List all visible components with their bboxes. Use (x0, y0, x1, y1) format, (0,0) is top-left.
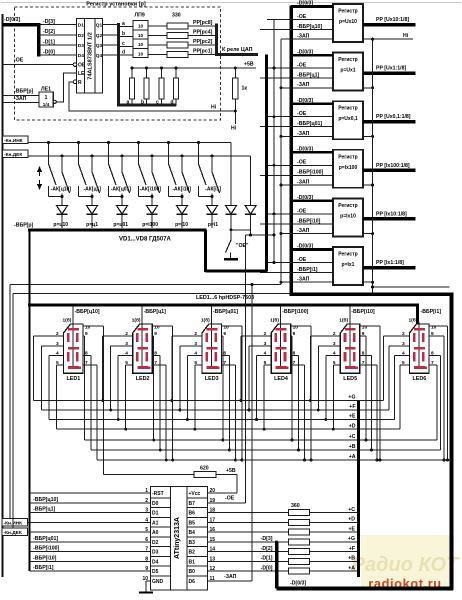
svg-text:-ЗАП: -ЗАП (14, 96, 27, 102)
segment G of LED1 (68, 347, 79, 350)
wire MCU pin 3 (30, 512, 151, 514)
wire -ЗАП mcu (208, 580, 253, 582)
wire -D[0/3] to U3 (291, 54, 333, 57)
junction switch pair (181, 195, 184, 198)
svg-text:LED1: LED1 (67, 376, 81, 382)
svg-text:B4: B4 (189, 530, 196, 536)
resistor 330 #4 (167, 52, 188, 58)
wire LED5 pin 2 (310, 335, 340, 337)
svg-text:1: 1 (45, 95, 48, 101)
wire LED6 pin 2 (384, 335, 410, 337)
wire ИНК to VD7 (230, 143, 232, 206)
bus PP [Uх10:1/8] (363, 23, 416, 27)
svg-text:-ОЕ: -ОЕ (297, 111, 307, 117)
junction -D[3] bus tap (275, 540, 278, 543)
wire LED2 pin 10 (152, 325, 173, 327)
junction switch pair (211, 195, 214, 198)
svg-text:-ВБР[ц1]: -ВБР[ц1] (33, 507, 55, 513)
wire LED2 pin 7 (152, 364, 166, 366)
switch SB9 (инкремент і10) (167, 141, 170, 144)
wire Q output (103, 34, 119, 36)
resistor 360 #5 (289, 549, 310, 555)
svg-text:-ВБР[і1]: -ВБР[і1] (297, 267, 318, 273)
junction LED3 pin 4 (186, 418, 189, 421)
junction LED5 pin 7 (376, 459, 379, 462)
svg-text:PP [Iх10:1/8]: PP [Iх10:1/8] (376, 211, 407, 217)
svg-text:Hi: Hi (403, 33, 409, 39)
wire LED6 pin 4 (395, 355, 410, 357)
wire to diode VD1 (61, 197, 63, 206)
wire -OE to U4 (267, 116, 333, 118)
svg-text:-Кн.ДЕК: -Кн.ДЕК (4, 530, 22, 536)
segment C of LED1 (76, 352, 79, 361)
wire MCU pin 16 (208, 531, 289, 533)
resistor 360 #2 (289, 519, 310, 525)
svg-text:Q1: Q1 (96, 23, 103, 29)
svg-text:Hi: Hi (211, 105, 217, 111)
svg-text:-ВБР[р]: -ВБР[р] (14, 89, 34, 95)
wire -Кн.ИНК to MCU pin 4 (9, 285, 11, 523)
bus left vertical (ВБР feed) (28, 228, 30, 571)
svg-text:-ВБР[ц01]: -ВБР[ц01] (213, 309, 238, 315)
wire to diode VD4 (151, 197, 153, 206)
resistor 330 #1 (167, 23, 188, 29)
segment C of LED3 (215, 352, 218, 361)
svg-text:PP[рс8]: PP[рс8] (193, 20, 213, 26)
wire Hi out U7 (363, 281, 373, 283)
junction d top (175, 67, 178, 70)
junction LED5 pin 3 (317, 409, 320, 412)
wire -Кн.ИНК line (28, 142, 231, 144)
resistor 360 #7 (289, 568, 310, 574)
junction LED3 pin 8 (228, 449, 231, 452)
segment E of LED1 (67, 352, 70, 361)
svg-text:Регистр: Регистр (338, 154, 357, 160)
svg-text:-ВБР[ц10]: -ВБР[ц10] (75, 309, 100, 315)
wire tap -D[3] (39, 24, 77, 26)
segment F of LED4 (275, 333, 278, 342)
wire tap d to ЛП9 (120, 54, 133, 56)
segment F of LED6 (413, 333, 416, 342)
svg-text:LED6: LED6 (413, 376, 427, 382)
svg-text:-D[0]: -D[0] (43, 50, 55, 56)
wire 620 to +5В (216, 474, 237, 476)
wire -D[0/3] to U4 (291, 102, 333, 105)
junction Hi column (371, 135, 374, 138)
segment B of LED4 (284, 333, 287, 342)
pin R of U1 (73, 80, 77, 84)
wire LED4 pin 7 (291, 364, 305, 366)
junction switch pair (151, 195, 154, 198)
svg-text:Регистр: Регистр (338, 57, 357, 63)
segment C of LED2 (145, 352, 148, 361)
junction switch pair (61, 195, 64, 198)
diode VD3 (117, 206, 128, 215)
junction OE column (273, 67, 276, 70)
svg-text:d: d (122, 50, 125, 56)
junction ЗАП column (280, 135, 283, 138)
wire VD7/VD8 join to ОЕ switch (231, 229, 251, 231)
wire MCU pin 12 (208, 570, 289, 572)
svg-text:-ВБР[і1]: -ВБР[і1] (421, 309, 442, 315)
junction c top (160, 67, 163, 70)
segment dp of LED3 (217, 366, 219, 368)
svg-text:D3: D3 (152, 550, 159, 556)
wire LED6 pin 5 (400, 364, 410, 366)
bus wrap vertical right of ОЕ switch (265, 55, 268, 272)
resistor c (159, 78, 164, 99)
junction LED2 pin 4 (117, 418, 120, 421)
svg-text:-ВБР[р]: -ВБР[р] (14, 223, 34, 229)
wire LED4 pin 3 (249, 345, 271, 347)
wire LED1 pin 8 (83, 355, 91, 357)
junction LED3 pin 5 (193, 428, 196, 431)
wire diode to bus (151, 215, 153, 229)
segment B of LED1 (76, 333, 79, 342)
junction OE column tap (273, 234, 276, 237)
wire MCU pin 8 (30, 560, 151, 562)
wire 1к bottom to Hi (234, 99, 236, 124)
wire -OE to U5 (267, 164, 333, 166)
svg-text:1(б): 1(б) (339, 317, 348, 324)
wire -OE to U1 (3, 64, 74, 66)
wire -OE to U3 (267, 67, 333, 69)
junction VD7 (230, 228, 233, 231)
svg-text:B7: B7 (189, 501, 196, 507)
svg-text:+B: +B (348, 556, 355, 562)
svg-text:-D[0/3]: -D[0/3] (297, 147, 313, 153)
segment G of LED6 (414, 347, 425, 350)
wire Hi out U6 (363, 233, 373, 235)
svg-text:LE: LE (78, 71, 85, 77)
wire LED3 pin 8 (221, 355, 229, 357)
wire Hi out U4 (363, 135, 373, 137)
svg-text:р=Uх1: р=Uх1 (340, 68, 355, 74)
svg-text:-D[0]: -D[0] (261, 565, 273, 571)
junction -D[0] bus tap (275, 570, 278, 573)
junction LED2 pin 9 (152, 439, 155, 442)
junction a top (131, 67, 134, 70)
svg-text:-ВБР[ц1]: -ВБР[ц1] (297, 73, 319, 79)
wire Q output (103, 44, 119, 46)
wire -D[0/3] to U5 (291, 151, 333, 154)
wire switch pair join (169, 196, 183, 198)
svg-text:р=ц01: р=ц01 (113, 222, 128, 228)
svg-text:10: 10 (138, 24, 144, 30)
wire LED1 pin 9 (83, 335, 85, 337)
bus PP [Uх1:1/8] (363, 71, 416, 75)
bus bottom edge (277, 587, 454, 591)
svg-text:D4: D4 (78, 53, 84, 59)
svg-text:-ЗАП: -ЗАП (297, 277, 310, 283)
svg-text:-Кн.ДЕК: -Кн.ДЕК (4, 152, 22, 158)
wire ИНК/ЗАП link horizontal (10, 284, 281, 286)
svg-text:ATtiny2313A: ATtiny2313A (174, 517, 181, 559)
segment E of LED2 (136, 352, 139, 361)
svg-text:-ВБР[ц1]: -ВБР[ц1] (144, 309, 166, 315)
wire LED3 pin 2 (172, 335, 202, 337)
junction OE column (273, 212, 276, 215)
svg-text:-ВБР[ц10]: -ВБР[ц10] (297, 24, 322, 30)
svg-text:-ВБР[і10]: -ВБР[і10] (33, 555, 57, 561)
bus wrap bottom (206, 270, 268, 273)
wire Hi out U2 (363, 38, 413, 40)
svg-text:-ВБР[ц01]: -ВБР[ц01] (297, 121, 322, 127)
wire tap b to ЛП9 (120, 36, 133, 38)
svg-text:D6: D6 (189, 579, 196, 585)
resistor d (174, 78, 179, 99)
wire MCU pin 15 (208, 541, 289, 543)
svg-text:+F: +F (349, 404, 355, 410)
boxed label -Кн.ИНК mcu (2, 518, 28, 526)
register U6 р=Iх10 (333, 198, 363, 236)
resistor 360 #4 (289, 539, 310, 545)
wire MCU pin 1 (30, 492, 151, 494)
svg-text:-АК[ц01]: -АК[ц01] (111, 187, 132, 193)
svg-text:р=Uх10: р=Uх10 (339, 19, 357, 25)
wire to +A (310, 570, 358, 572)
wire to PP[рс1] (188, 54, 215, 56)
svg-text:р=Iх1: р=Iх1 (342, 262, 355, 268)
wire -ВБР[ц1] to U3 (260, 77, 333, 79)
segment dp of LED6 (425, 366, 427, 368)
diode VD1 (57, 206, 68, 215)
wire LED1 pin 3 (42, 345, 64, 347)
wire ЗАП vertical (251, 285, 253, 581)
segment B of LED2 (145, 333, 148, 342)
wire resistor c bottom (161, 99, 163, 106)
register U4 р=Uх0,1 (333, 101, 363, 139)
svg-text:a: a (127, 100, 130, 106)
svg-text:+C: +C (349, 434, 356, 440)
svg-text:D1: D1 (78, 23, 84, 29)
wire diode to bus (211, 215, 213, 229)
wire to diode VD3 (121, 197, 123, 206)
register U1 74ALS873BNT 1/2 (77, 19, 103, 94)
wire tap -D[1] (39, 44, 77, 46)
junction OE column (273, 261, 276, 264)
svg-text:Hi: Hi (231, 126, 237, 132)
wire Hi out U5 (363, 184, 373, 186)
wire to +E (310, 531, 358, 533)
junction LED3 pin10 (240, 459, 243, 462)
wire LED4 pin 2 (241, 335, 271, 337)
boxed label -Кн.ИНК (3, 136, 29, 144)
wire -OE to U7 (267, 262, 333, 264)
junction LED4 pin 5 (263, 428, 266, 431)
svg-text:+G: +G (348, 395, 355, 401)
svg-text:+D: +D (349, 423, 356, 429)
wire to +D (310, 521, 358, 523)
junction LED4 pin 8 (297, 449, 300, 452)
arrow up (37, 166, 42, 172)
svg-text:Регистр установки [р]: Регистр установки [р] (86, 2, 146, 8)
svg-text:c: c (156, 100, 159, 106)
svg-text:-ЗАП: -ЗАП (297, 228, 310, 234)
svg-text:1к: 1к (242, 86, 248, 92)
svg-text:9: 9 (154, 331, 157, 337)
wire -ВБР[ц01] select (210, 306, 212, 368)
bus -D[0/3] main vertical (289, 6, 293, 296)
wire LED2 pin 4 (118, 355, 133, 357)
svg-text:VD1...VD8 ГД507А: VD1...VD8 ГД507А (119, 237, 172, 243)
wire resistor a top (131, 68, 133, 78)
resistor 360 #1 (289, 510, 310, 516)
bus PP [Iх1:1/8] (363, 266, 416, 270)
wire MCU pin 6 (30, 541, 151, 543)
bus PP [Uх0,1:1/8] (363, 120, 416, 124)
wire ЗАП column (280, 39, 282, 284)
bus abcd bottom run (117, 104, 176, 107)
svg-text:10: 10 (138, 51, 144, 57)
segment G of LED2 (137, 347, 148, 350)
switch SB12 (декремент і1) (211, 154, 214, 157)
junction LED2 pin 3 (109, 409, 112, 412)
junction -D[2] bus tap (275, 550, 278, 553)
svg-text:-ЗАП: -ЗАП (297, 34, 310, 40)
svg-text:-ОЕ: -ОЕ (297, 14, 307, 20)
svg-text:PP[рс2]: PP[рс2] (193, 39, 213, 45)
wire LED2 pin 8 (152, 355, 160, 357)
svg-text:D2: D2 (78, 33, 84, 39)
wire 620 rail (104, 474, 195, 476)
wire tap a to ЛП9 (120, 26, 133, 28)
junction Hi column (371, 38, 374, 41)
svg-text:-D[0/3]: -D[0/3] (290, 581, 306, 587)
svg-text:B1: B1 (189, 559, 196, 565)
wire MCU pin 13 (208, 560, 289, 562)
svg-text:+C: +C (348, 507, 355, 513)
wire LED3 pin 10 (221, 325, 242, 327)
svg-text:D2: D2 (152, 540, 159, 546)
svg-text:620: 620 (200, 466, 209, 472)
wire tap -D[0] (39, 54, 77, 56)
junction Hi (234, 110, 237, 113)
svg-text:+A: +A (349, 454, 356, 460)
bus right edge vertical (450, 293, 454, 590)
wire MCU pin 9 (30, 570, 151, 572)
svg-text:D5: D5 (152, 569, 159, 575)
diode VD2 (87, 206, 98, 215)
segment B of LED6 (422, 333, 425, 342)
svg-text:-ЗАП: -ЗАП (224, 574, 237, 580)
segment G of LED4 (276, 347, 287, 350)
svg-text:PP [Iх100:1/8]: PP [Iх100:1/8] (376, 163, 410, 169)
bus -D[0/3] mcu (275, 542, 279, 589)
segment D of LED4 (276, 366, 287, 369)
wire switch pair join (139, 196, 153, 198)
svg-text:-ОЕ: -ОЕ (297, 63, 307, 69)
wire LED5 pin 3 (318, 345, 340, 347)
segment D of LED3 (207, 366, 218, 369)
wire ЛП9 out 1 (148, 25, 167, 27)
svg-text:PP [Uх10:1/8]: PP [Uх10:1/8] (376, 17, 409, 23)
wire LED3 pin 9 (221, 335, 223, 337)
svg-text:10: 10 (138, 42, 144, 48)
wire -ВБР[р] to gate (3, 94, 40, 96)
wire LED4 pin 4 (257, 355, 272, 357)
segment F of LED1 (67, 333, 70, 342)
wire LED2 pin 5 (126, 364, 133, 366)
wire -ЗАП to U4 (281, 135, 333, 137)
wire to +C (310, 512, 358, 514)
wire to +F (310, 551, 358, 553)
wire -D[0/3] to U6 (291, 200, 333, 203)
svg-text:-D[0/3]: -D[0/3] (297, 244, 313, 250)
wire diode to bus (91, 215, 93, 229)
wire segment line +B (91, 449, 441, 451)
junction ЗАП link (251, 283, 254, 286)
ground (224, 258, 238, 260)
dashed box Регистр установки [р] (15, 7, 221, 120)
svg-text:b: b (122, 31, 125, 37)
segment A of LED3 (207, 328, 218, 331)
segment C of LED6 (422, 352, 425, 361)
svg-text:К реле ЦАП: К реле ЦАП (222, 47, 253, 53)
wire segment line +F (42, 409, 390, 411)
svg-text:-ОЕ: -ОЕ (297, 208, 307, 214)
svg-text:-ВБР[і100]: -ВБР[і100] (282, 309, 308, 315)
register U3 р=Uх1 (333, 53, 363, 91)
svg-text:PP [Uх0,1:1/8]: PP [Uх0,1:1/8] (376, 114, 411, 120)
bus К реле ЦАП (215, 53, 258, 56)
svg-text:Регистр: Регистр (338, 106, 357, 112)
wire left border trunk (2, 14, 4, 577)
wire -D[0/3] to U2 (291, 5, 333, 8)
wire segment line +A (97, 459, 452, 461)
wire segment line +E (49, 419, 395, 421)
wire -ВБР[ц1] select (141, 306, 143, 368)
svg-text:9: 9 (293, 331, 296, 337)
wire -ВБР[і1] to U7 (260, 272, 333, 274)
switch SB1 (инкремент ц10) (47, 141, 50, 144)
wire -ЗАП to U7 (281, 281, 333, 283)
wire segment line +C (85, 439, 438, 441)
wire Q output (103, 24, 119, 26)
svg-text:330: 330 (172, 13, 181, 19)
arrow down (37, 184, 42, 190)
wire LED1 pin10 to 620 rail (103, 326, 105, 475)
wire LED5 pin 10 (360, 325, 380, 327)
svg-text:-D[0/3]: -D[0/3] (4, 17, 20, 23)
wire +Vcc pin 20 (208, 492, 238, 494)
junction b top (145, 67, 148, 70)
wire -OE pin 19 (208, 502, 246, 504)
wire LED5 pin 8 (360, 355, 372, 357)
segment D of LED5 (345, 366, 356, 369)
+5В rail (132, 67, 256, 69)
wire -ВБР[і100] to U5 (260, 174, 333, 176)
wire LED4 pin 8 (291, 355, 299, 357)
wire diode to bus (121, 215, 123, 229)
svg-text:b: b (141, 100, 144, 106)
resistor 330 #3 (167, 42, 188, 48)
junction ЗАП column (280, 281, 283, 284)
watermark background (361, 535, 454, 588)
switch SB3 (инкремент ц1) (77, 141, 80, 144)
svg-text:A1: A1 (152, 520, 159, 526)
switch SB7 (инкремент і100) (137, 141, 140, 144)
svg-text:+D: +D (348, 517, 355, 523)
wire ЛП9 out 4 (148, 54, 167, 56)
junction LED3 pin 2 (170, 399, 173, 402)
wire -ЗАП to U3 (281, 87, 333, 89)
svg-text:-D[1]: -D[1] (261, 556, 273, 562)
svg-text:B5: B5 (189, 520, 196, 526)
wire LED4 pin 5 (264, 364, 271, 366)
svg-text:PP[рс1]: PP[рс1] (193, 49, 213, 55)
svg-text:74ALS873BNT 1/2: 74ALS873BNT 1/2 (88, 32, 94, 80)
